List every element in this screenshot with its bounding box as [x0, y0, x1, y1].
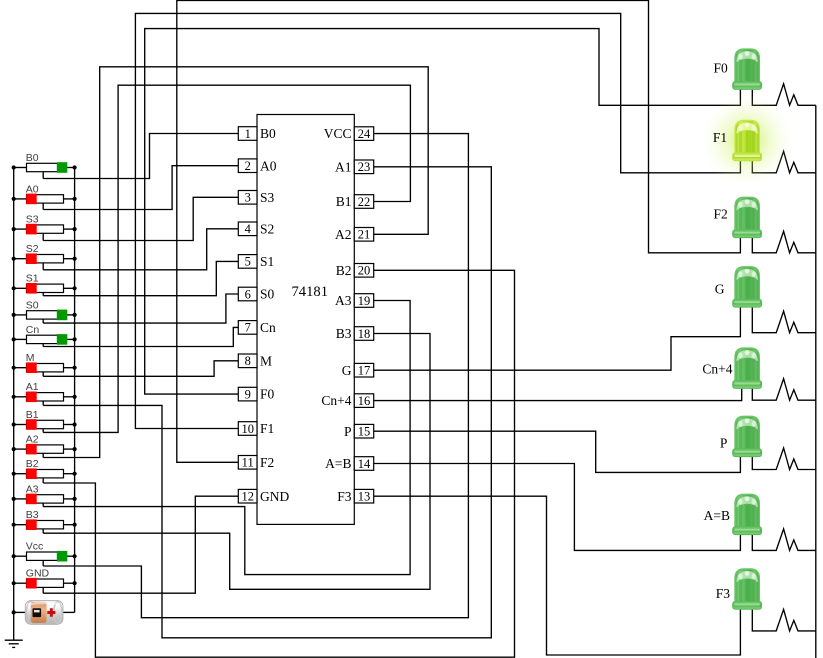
wire pin 13 F3 to LED F3 — [374, 496, 741, 655]
LED F3 — [733, 569, 762, 609]
svg-text:20: 20 — [358, 264, 371, 278]
pin 14 box — [354, 457, 373, 471]
switch Cn — [14, 324, 75, 347]
wire Cn switch to pin 7 — [43, 327, 238, 346]
pin 2 box — [238, 159, 257, 173]
svg-text:F2: F2 — [260, 455, 274, 470]
wire pin 15 P to LED P — [374, 431, 741, 472]
LED Cn+4 — [733, 348, 762, 388]
junction dot B3 right — [73, 523, 77, 527]
pin 6 box — [238, 287, 257, 301]
switch S3 — [14, 214, 75, 241]
svg-text:A3: A3 — [335, 293, 352, 308]
junction dot M right — [73, 366, 77, 370]
pin 10 box — [238, 422, 257, 436]
switch S2 — [14, 243, 75, 270]
svg-text:9: 9 — [245, 387, 251, 401]
svg-text:Vcc: Vcc — [26, 541, 44, 553]
junction dot S1 right — [73, 286, 77, 290]
svg-text:15: 15 — [358, 425, 371, 439]
svg-text:B1: B1 — [336, 194, 352, 209]
svg-text:74181: 74181 — [292, 284, 328, 300]
junction dot Vcc right — [73, 554, 77, 558]
svg-text:5: 5 — [245, 255, 251, 269]
svg-text:GND: GND — [26, 568, 50, 580]
wire pin 16 Cn+4 to LED Cn+4 — [374, 388, 742, 400]
svg-text:F1: F1 — [260, 421, 274, 436]
junction dot S0 right — [73, 313, 77, 317]
svg-text:1: 1 — [245, 127, 251, 141]
junction dot B1 left — [12, 422, 16, 426]
pin 5 box — [238, 255, 257, 269]
junction dot A2 right — [73, 447, 77, 451]
svg-text:Cn: Cn — [260, 320, 276, 335]
switch A1 — [14, 381, 75, 405]
LED F1 — [733, 121, 762, 161]
switch A0 — [14, 183, 75, 209]
wire B3 switch to pin 18 — [43, 334, 430, 590]
svg-text:10: 10 — [241, 422, 254, 436]
junction dot GND right — [73, 581, 77, 585]
wire A2 switch to pin 21 — [43, 67, 428, 458]
op-amp/IC U1 74181 body — [257, 115, 354, 525]
LED P — [733, 416, 762, 456]
LED F0 — [733, 49, 762, 89]
LED A=B — [733, 494, 762, 534]
junction dot S1 left — [12, 286, 16, 290]
switch B2 — [14, 458, 75, 483]
switch A3 — [14, 483, 75, 506]
svg-text:B2: B2 — [336, 263, 352, 278]
svg-text:Cn: Cn — [26, 324, 40, 336]
switch S1 — [14, 273, 75, 296]
svg-text:S3: S3 — [26, 214, 39, 226]
wire pin 10 F1 to LED F1 — [135, 13, 740, 428]
pin 13 box — [354, 489, 373, 503]
pin 8 box — [238, 354, 257, 368]
svg-text:F3: F3 — [337, 489, 352, 504]
pin 1 box — [238, 127, 257, 141]
svg-text:B1: B1 — [26, 409, 39, 421]
junction dot GND left — [12, 581, 16, 585]
LED F1 glow — [701, 94, 793, 186]
svg-text:VCC: VCC — [324, 126, 352, 141]
svg-text:Cn+4: Cn+4 — [321, 393, 351, 408]
svg-text:13: 13 — [358, 490, 371, 504]
junction dot S2 left — [12, 257, 16, 261]
pin 23 box — [354, 160, 373, 174]
svg-text:S1: S1 — [260, 254, 274, 269]
junction dot B0 left — [12, 165, 16, 169]
switch M — [14, 352, 75, 376]
svg-text:B3: B3 — [336, 326, 352, 341]
pin 19 box — [354, 294, 373, 308]
junction dot A0 right — [73, 197, 77, 201]
svg-text:19: 19 — [358, 294, 371, 308]
wire Vcc switch to pin 24 — [43, 134, 468, 618]
junction dot B0 right — [73, 165, 77, 169]
junction dot Vcc left — [12, 554, 16, 558]
svg-text:11: 11 — [242, 456, 254, 470]
junction dot A1 left — [12, 395, 16, 399]
svg-text:23: 23 — [358, 160, 371, 174]
svg-text:A0: A0 — [26, 183, 39, 195]
svg-text:F0: F0 — [260, 387, 275, 402]
wire LED return rail — [815, 105, 817, 658]
svg-text:G: G — [715, 282, 725, 297]
junction dot M left — [12, 366, 16, 370]
pin 21 box — [354, 228, 373, 242]
svg-text:S2: S2 — [260, 221, 274, 236]
svg-text:A0: A0 — [260, 158, 277, 173]
svg-text:A3: A3 — [26, 483, 39, 495]
svg-text:8: 8 — [245, 354, 251, 368]
wire S0 switch to pin 6 — [43, 294, 238, 323]
junction dot B2 left — [12, 472, 16, 476]
junction dot S2 right — [73, 257, 77, 261]
pin 17 box — [354, 363, 373, 377]
svg-text:B0: B0 — [260, 126, 276, 141]
svg-text:A=B: A=B — [325, 456, 351, 471]
svg-text:22: 22 — [358, 195, 371, 209]
pin 9 box — [238, 387, 257, 401]
junction dot B1 right — [73, 422, 77, 426]
svg-text:14: 14 — [358, 457, 371, 471]
resistor R-P — [752, 448, 816, 470]
svg-text:A2: A2 — [335, 227, 352, 242]
svg-text:21: 21 — [358, 228, 371, 242]
svg-text:P: P — [344, 424, 352, 439]
wire B1 switch to pin 22 — [43, 85, 410, 432]
junction dot S3 right — [73, 227, 77, 231]
svg-text:GND: GND — [260, 489, 289, 504]
junction dot Cn right — [73, 337, 77, 341]
junction dot A3 left — [12, 497, 16, 501]
wire B0 switch to pin 1 — [43, 134, 238, 179]
junction dot B3 left — [12, 523, 16, 527]
resistor R-F1 — [752, 151, 816, 173]
svg-text:S0: S0 — [260, 287, 275, 302]
svg-text:S3: S3 — [260, 190, 275, 205]
wire battery positive lead — [62, 611, 75, 613]
svg-text:7: 7 — [245, 321, 251, 335]
svg-text:B3: B3 — [26, 509, 39, 521]
wire A3 switch to pin 19 — [43, 301, 410, 575]
switch B1 — [14, 409, 75, 433]
junction dot S3 left — [12, 227, 16, 231]
svg-text:A1: A1 — [335, 159, 352, 174]
svg-text:4: 4 — [245, 222, 252, 236]
svg-text:16: 16 — [358, 394, 371, 408]
wire pin 14 A=B to LED A=B — [374, 464, 741, 551]
junction dot S0 left — [12, 313, 16, 317]
svg-text:12: 12 — [241, 490, 254, 504]
switch B0 — [14, 152, 75, 179]
junction dot Cn left — [12, 337, 16, 341]
pin 16 box — [354, 394, 373, 408]
wire S2 switch to pin 4 — [43, 229, 238, 270]
svg-text:S2: S2 — [26, 243, 39, 255]
svg-text:24: 24 — [358, 127, 371, 141]
pin 15 box — [354, 424, 373, 438]
pin 20 box — [354, 264, 373, 278]
LED G — [733, 267, 762, 307]
switch B3 — [14, 509, 75, 533]
svg-text:17: 17 — [358, 364, 371, 378]
svg-text:6: 6 — [245, 287, 251, 301]
wire S1 switch to pin 5 — [43, 261, 238, 295]
pin 22 box — [354, 195, 373, 209]
svg-text:S0: S0 — [26, 299, 39, 311]
switch GND — [14, 568, 75, 594]
switch A2 — [14, 434, 75, 458]
svg-text:F2: F2 — [714, 207, 728, 222]
wire pin 9 F0 to LED F0 — [145, 29, 741, 395]
resistor R-F2 — [752, 231, 816, 253]
wire pin 17 G to LED G — [374, 307, 741, 370]
resistor R-Cn+4 — [752, 379, 816, 401]
battery B1 (cell) — [25, 600, 63, 624]
wire pin 11 F2 to LED F2 — [177, 1, 741, 463]
junction dot A3 right — [73, 497, 77, 501]
switch S0 — [14, 299, 75, 323]
resistor R-F0 — [752, 84, 816, 106]
junction dot A2 left — [12, 447, 16, 451]
wire right rail (battery + bus) — [74, 168, 76, 613]
switch Vcc — [14, 541, 75, 566]
pin 18 box — [354, 327, 373, 341]
svg-text:G: G — [342, 363, 352, 378]
svg-text:3: 3 — [245, 191, 251, 205]
svg-text:M: M — [260, 353, 272, 368]
resistor R-F3 — [752, 609, 816, 631]
pin 7 box — [238, 321, 257, 335]
wire left rail (battery - / ground bus) — [13, 168, 15, 641]
junction dot A1 right — [73, 395, 77, 399]
wire M switch to pin 8 — [43, 361, 238, 377]
svg-text:2: 2 — [245, 159, 251, 173]
svg-text:F0: F0 — [714, 60, 729, 75]
resistor R-G — [752, 307, 816, 333]
wire GND switch to pin 12 — [43, 496, 238, 593]
pin 12 box — [238, 489, 257, 503]
pin 24 box — [354, 127, 373, 141]
ground symbol — [5, 640, 23, 647]
svg-text:B2: B2 — [26, 458, 39, 470]
svg-text:M: M — [26, 352, 35, 364]
wire battery negative lead — [14, 611, 27, 613]
wire A1 switch to pin 23 — [43, 167, 491, 638]
resistor R-A=B — [752, 529, 816, 551]
svg-text:B0: B0 — [26, 152, 39, 164]
svg-text:P: P — [720, 435, 728, 450]
wire A0 switch to pin 2 — [43, 166, 238, 210]
pin 4 box — [238, 222, 257, 236]
svg-text:F3: F3 — [716, 586, 731, 601]
pin 3 box — [238, 191, 257, 205]
svg-text:A=B: A=B — [704, 508, 730, 523]
LED F2 — [733, 197, 762, 237]
junction dot battery negative on left rail — [12, 610, 16, 614]
svg-text:A1: A1 — [26, 381, 39, 393]
pin 11 box — [238, 456, 257, 470]
svg-text:18: 18 — [358, 327, 371, 341]
svg-text:S1: S1 — [26, 273, 39, 285]
wire S3 switch to pin 3 — [43, 197, 238, 240]
svg-text:Cn+4: Cn+4 — [702, 362, 732, 377]
wire B2 switch to pin 20 — [43, 270, 514, 657]
junction dot A0 left — [12, 197, 16, 201]
svg-text:A2: A2 — [26, 434, 39, 446]
junction dot B2 right — [73, 472, 77, 476]
svg-text:F1: F1 — [713, 130, 727, 145]
